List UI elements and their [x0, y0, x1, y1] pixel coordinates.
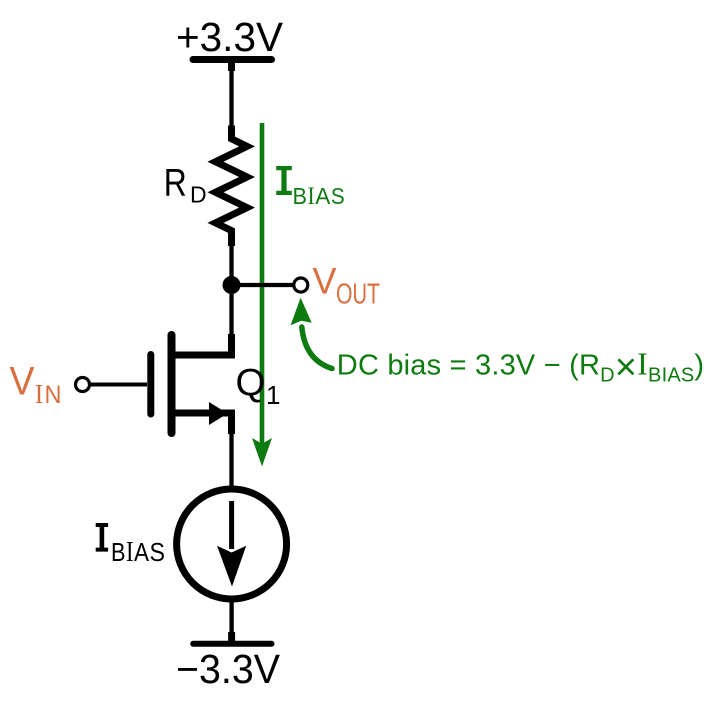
svg-text:BIAS: BIAS: [293, 183, 345, 210]
transistor Q1 source arrow: [209, 402, 228, 425]
current source I1 circle: [177, 489, 287, 599]
svg-text:Q: Q: [236, 362, 266, 404]
+3.3V supply rail: [193, 56, 272, 63]
svg-text:R: R: [164, 161, 187, 204]
-3.3V supply rail: [193, 641, 271, 647]
input terminal circle: [76, 378, 90, 392]
svg-text:BIAS: BIAS: [111, 537, 165, 568]
svg-text:−3.3V: −3.3V: [176, 646, 281, 692]
wire current source to negative rail: [229, 598, 233, 644]
svg-text:+3.3V: +3.3V: [176, 14, 284, 60]
green curved annotation arrowhead: [291, 298, 312, 326]
green curved annotation arrow shaft: [302, 327, 332, 369]
wire source down to current source: [229, 432, 233, 488]
svg-text:OUT: OUT: [336, 279, 380, 311]
svg-text:V: V: [313, 260, 337, 301]
current source label I_BIAS: [96, 523, 108, 552]
wire rail to resistor: [229, 60, 233, 128]
transistor Q1 drain lead: [172, 334, 232, 355]
wire node to output terminal: [232, 283, 293, 287]
green I_BIAS current line: [260, 123, 265, 455]
current source arrowhead: [217, 546, 246, 587]
wire input to gate: [90, 383, 147, 387]
svg-text:IN: IN: [35, 378, 62, 409]
svg-text:V: V: [10, 359, 35, 403]
green current arrowhead: [252, 438, 272, 467]
svg-text:D: D: [190, 182, 207, 208]
current source arrow shaft: [229, 501, 234, 549]
node dot: [223, 276, 241, 294]
svg-text:1: 1: [266, 380, 280, 410]
wire drain to node: [229, 294, 233, 336]
output terminal circle: [294, 278, 308, 292]
transistor Q1 gate bar: [147, 355, 154, 415]
wire resistor to node: [229, 243, 233, 285]
transistor Q1 source lead: [172, 413, 232, 434]
transistor Q1 channel bar: [168, 335, 176, 433]
resistor R1 zigzag: [216, 126, 248, 247]
green label I_BIAS: [276, 166, 292, 195]
